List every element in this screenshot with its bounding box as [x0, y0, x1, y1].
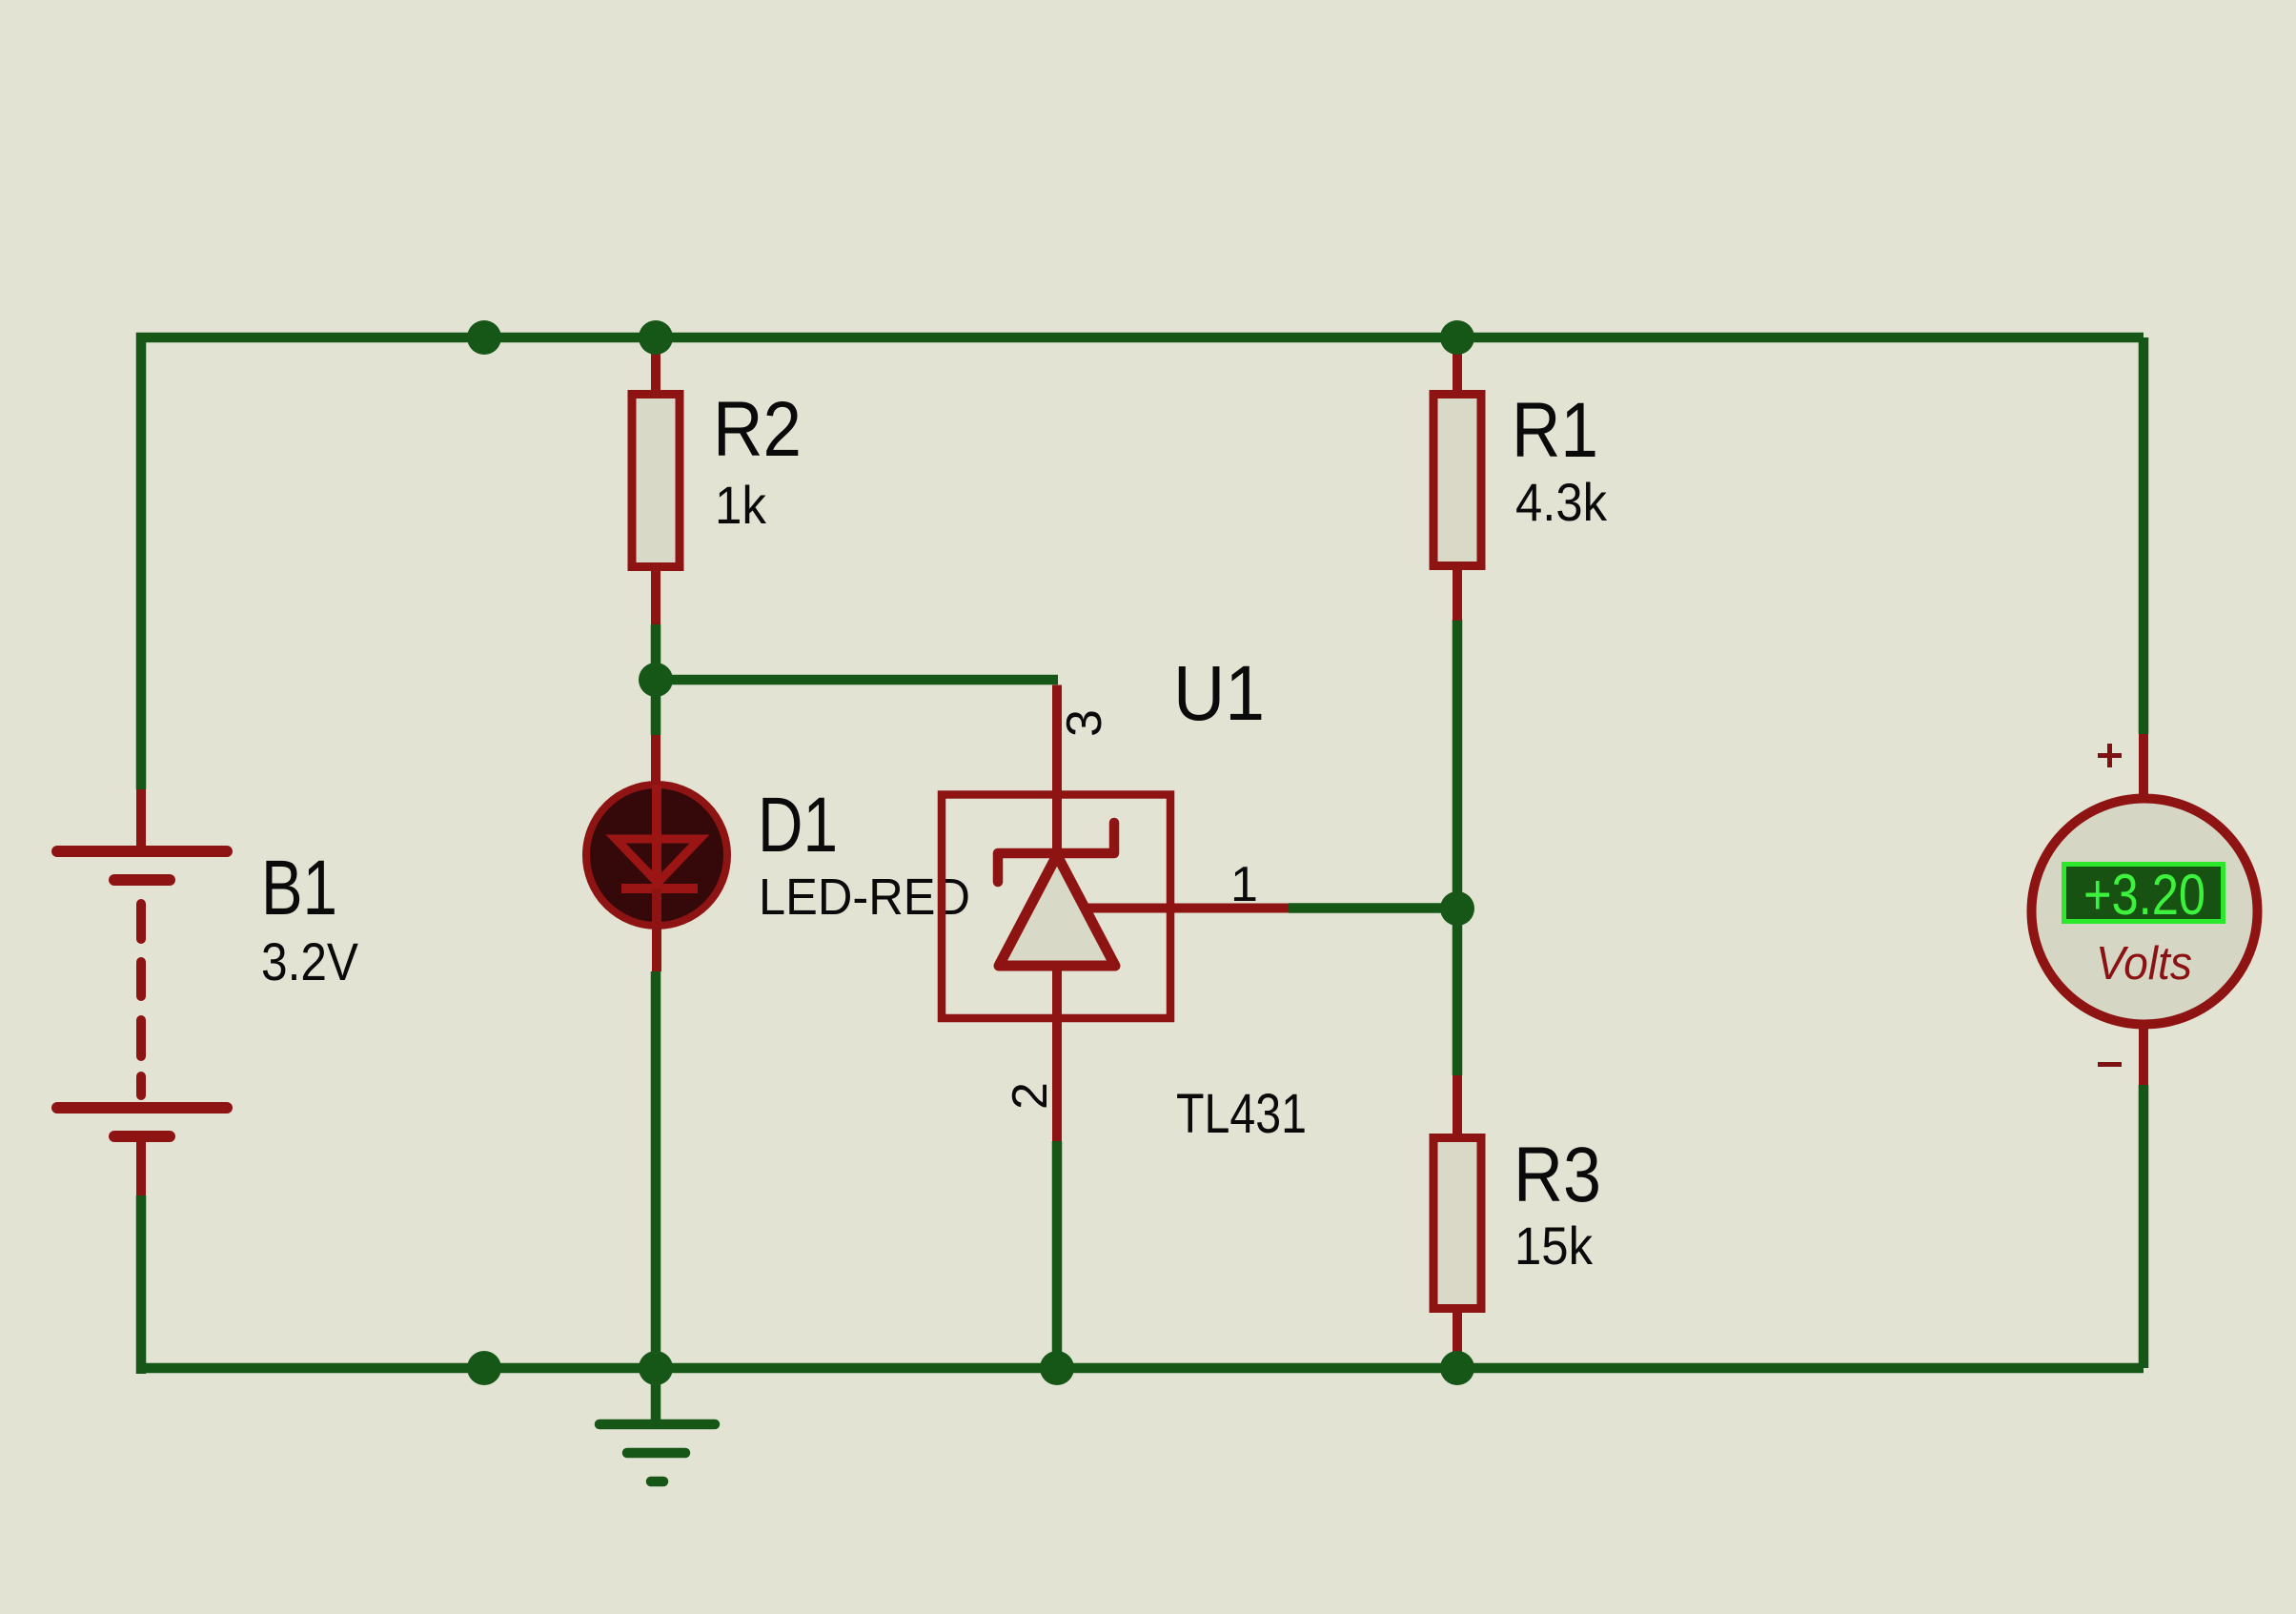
wire top rail: [141, 337, 2144, 789]
U1 pin 2 lead: [1052, 966, 1062, 1141]
voltmeter minus lead: [2139, 1024, 2148, 1085]
svg-text:R1: R1: [1512, 387, 1598, 474]
wire left vertical bottom: [136, 1195, 147, 1374]
ground bar 1: [599, 1420, 715, 1430]
U1 triangle: [999, 855, 1115, 966]
svg-text:3: 3: [1057, 709, 1112, 737]
svg-text:+3.20: +3.20: [2083, 863, 2205, 927]
svg-text:2: 2: [1003, 1082, 1058, 1110]
resistor R1 lead top: [1453, 337, 1462, 390]
node dot R2/U1: [639, 663, 673, 697]
node dot R3 bottom: [1440, 1351, 1474, 1385]
resistor R1 lead bottom: [1453, 570, 1462, 621]
node dot pin1/R1/R3: [1440, 891, 1474, 926]
battery B1 top lead: [136, 789, 146, 851]
wire U1 pin1 to R1/R3 node: [1289, 903, 1457, 913]
svg-text:R2: R2: [713, 386, 802, 473]
svg-text:1k: 1k: [715, 475, 767, 535]
wire right vertical bottom: [2139, 1085, 2149, 1368]
svg-text:U1: U1: [1173, 650, 1265, 737]
battery B1 bottom lead: [136, 1136, 146, 1195]
node dot bottom-left: [467, 1351, 501, 1385]
svg-text:TL431: TL431: [1176, 1083, 1307, 1145]
U1 pin 1 lead: [1083, 904, 1289, 913]
svg-text:3.2V: 3.2V: [261, 931, 359, 991]
LED D1 cathode lead: [652, 889, 661, 971]
node dot R1 top: [1440, 320, 1474, 355]
resistor R3 lead bottom: [1453, 1313, 1462, 1368]
voltmeter plus lead: [2139, 734, 2148, 799]
battery B1 plate long top: [57, 846, 227, 857]
U1 pin 3 lead: [1052, 685, 1062, 854]
battery B1 plate short top: [114, 874, 170, 886]
svg-text:B1: B1: [261, 845, 337, 931]
wire U1 pin2 to bottom rail: [1052, 1141, 1063, 1368]
ground stub: [651, 1368, 661, 1422]
resistor R3 lead top: [1453, 1075, 1462, 1134]
node dot R2 top: [639, 320, 673, 355]
LED D1 body circle: [586, 785, 727, 926]
LED D1 cathode bar: [621, 884, 698, 893]
svg-text:D1: D1: [758, 782, 838, 868]
svg-text:4.3k: 4.3k: [1515, 472, 1608, 532]
resistor R2 lead bottom: [651, 570, 660, 624]
resistor R2 lead top: [651, 337, 660, 390]
wire node R2/U1 pin3 horizontal: [656, 675, 1058, 685]
U1 cathode bar with hooks: [998, 823, 1114, 882]
op-amp U1 TL431 box: [942, 795, 1170, 1019]
node dot ground: [639, 1351, 673, 1385]
LED D1 anode lead through body: [652, 785, 661, 887]
voltmeter minus sign: [2098, 1062, 2122, 1067]
svg-text:R3: R3: [1514, 1132, 1601, 1218]
wire R2 column: R2 bottom to LED top: [651, 624, 661, 735]
battery B1 dashed middle: [136, 904, 146, 1095]
battery B1 plate long bottom: [57, 1102, 227, 1113]
voltmeter plus sign: [2098, 744, 2122, 767]
LED D1 top lead: [651, 735, 660, 791]
resistor R3 body: [1433, 1138, 1481, 1309]
node dot top-left: [467, 320, 501, 355]
wire right vertical top: [2139, 337, 2149, 734]
ground bar 2: [627, 1448, 685, 1459]
wire bottom rail: [141, 1363, 2144, 1374]
svg-text:15k: 15k: [1514, 1216, 1594, 1276]
voltmeter body circle: [2032, 799, 2258, 1025]
node dot pin2 bottom: [1040, 1351, 1074, 1385]
battery B1 plate short bottom: [114, 1131, 170, 1142]
wire R1 bottom to R3 top: [1453, 620, 1463, 1075]
resistor R2 body: [632, 395, 680, 567]
voltmeter LCD display: [2064, 865, 2224, 922]
svg-text:Volts: Volts: [2096, 938, 2192, 990]
LED D1 triangle: [616, 839, 700, 883]
ground bar 3: [651, 1477, 663, 1487]
resistor R1 body: [1433, 395, 1481, 566]
svg-text:1: 1: [1230, 857, 1258, 912]
wire LED bottom to bottom rail: [651, 971, 661, 1368]
